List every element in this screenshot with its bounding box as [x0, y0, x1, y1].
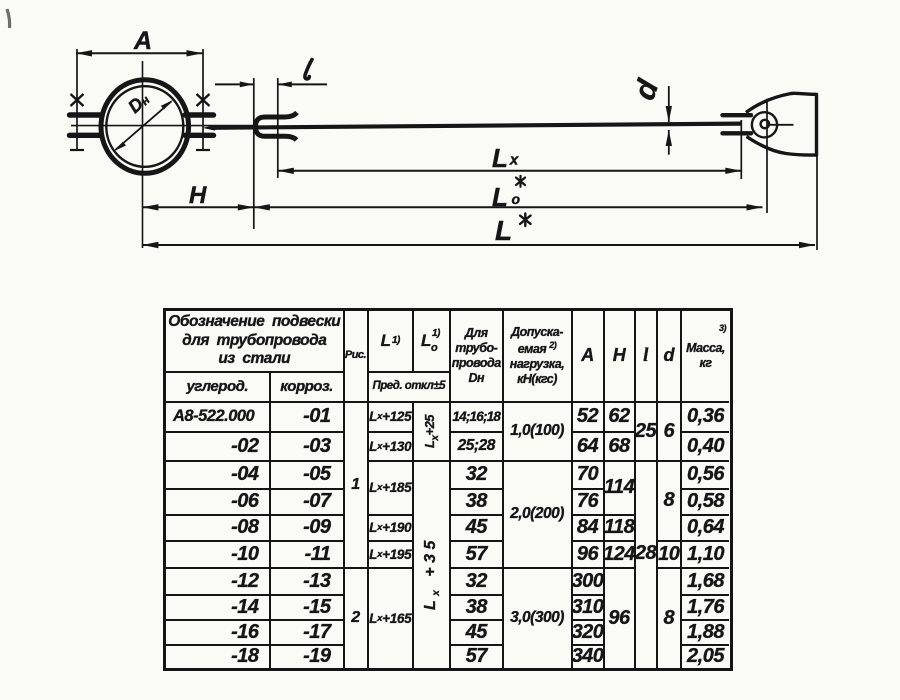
- header: углерод: [166, 373, 271, 403]
- header: Lo: [414, 311, 451, 373]
- svg-text:A: A: [133, 27, 152, 55]
- H dimension line: [142, 206, 253, 208]
- svg-text:L: L: [492, 182, 508, 212]
- A dimension extension line right: [202, 49, 204, 150]
- rod left taper at clamp lug: [203, 125, 216, 131]
- header: l: [636, 311, 658, 403]
- col1 designations: [166, 403, 271, 434]
- svg-text:Lx: Lx: [492, 143, 519, 173]
- header: Пред откл: [369, 373, 452, 403]
- Lx dimension line: [278, 170, 742, 172]
- svg-text:Dн: Dн: [124, 88, 153, 117]
- eyelet pin: [761, 120, 769, 128]
- clamp vertical centerline: [142, 61, 144, 248]
- A dimension extension line left: [76, 49, 78, 150]
- col6 Dн values: [451, 403, 504, 434]
- label l (script ell): [305, 60, 312, 79]
- extension line x=741.3 (rod end / Lx right): [740, 120, 742, 179]
- fork (left clevis): [256, 113, 298, 141]
- header: H: [605, 311, 636, 403]
- weld cross left: [71, 94, 84, 106]
- Lo* dimension line: [254, 206, 763, 208]
- col12 mass values: [682, 403, 729, 434]
- right fork prongs: [723, 115, 752, 133]
- A dimension line: [76, 52, 203, 54]
- col9 H values: [605, 403, 636, 434]
- header: Обозначение подвески: [166, 311, 345, 373]
- col10 l values: [636, 403, 658, 462]
- eyelet outer circle: [752, 112, 777, 137]
- header: корроз: [271, 373, 345, 403]
- svg-text:H: H: [189, 182, 207, 209]
- col2 designations: [271, 403, 345, 434]
- d dimension arrows: [668, 86, 670, 122]
- Dн diameter arrow: [116, 101, 172, 150]
- extension line x=768 (eyelet center / Lo* right): [766, 99, 768, 213]
- pipe clamp inner circle (pipe Dн): [106, 86, 183, 167]
- col11 d values: [658, 403, 683, 462]
- svg-text:o: o: [512, 191, 521, 207]
- left clamp lug bolts: [70, 115, 102, 135]
- extension line x=278.7 (fork right / Lx left): [277, 78, 279, 178]
- header: Для трубопровода Dн: [451, 311, 504, 403]
- l dimension line (left part with arrow): [215, 83, 254, 85]
- header: Рис: [345, 311, 369, 403]
- svg-text:L: L: [495, 215, 512, 246]
- right clamp lug bolts: [185, 115, 214, 135]
- col3 Рис values: [345, 403, 369, 569]
- header: L: [369, 311, 415, 373]
- col7 load values: [504, 403, 573, 462]
- col5 Lo values (rotated): [414, 403, 451, 462]
- extension line x=253.8 (fork left / H right / Lo* left): [253, 78, 255, 229]
- header: A: [573, 311, 605, 403]
- weld cross right: [197, 94, 210, 106]
- clamp horizontal centerline: [71, 125, 258, 127]
- header: d: [658, 311, 683, 403]
- eyelet horizontal centerline: [770, 124, 794, 126]
- L* dimension line: [142, 244, 815, 246]
- col8 A values: [573, 403, 605, 434]
- pipe clamp outer ring: [101, 80, 189, 174]
- l dimension line (right part with arrow): [278, 83, 327, 85]
- scan artifact top-left corner: [7, 9, 10, 28]
- rod: [211, 124, 741, 128]
- extension line x=817 (bracket right / L* right): [816, 156, 818, 250]
- header: Масса: [682, 311, 729, 403]
- header: Допускаемая нагрузка: [504, 311, 573, 403]
- col4 L values: [369, 403, 415, 434]
- svg-text:d: d: [628, 75, 666, 104]
- bracket (ear): [746, 93, 817, 155]
